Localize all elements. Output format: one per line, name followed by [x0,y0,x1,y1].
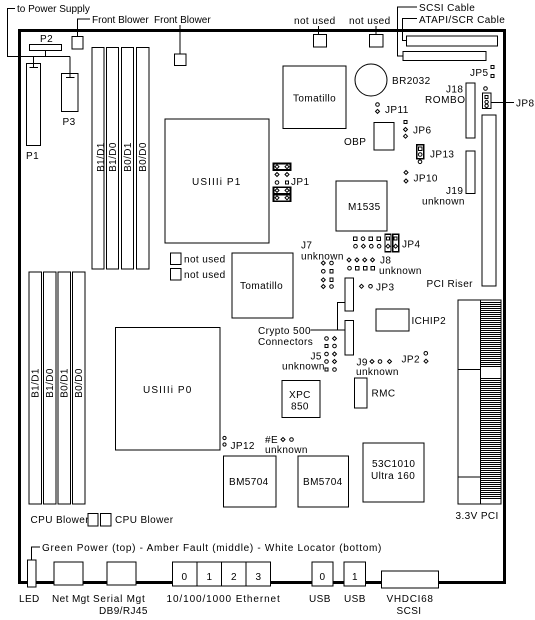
svg-text:JP10: JP10 [414,174,438,185]
svg-text:unknown: unknown [301,252,344,263]
svg-text:P2: P2 [40,34,53,45]
svg-text:Tomatillo: Tomatillo [240,281,283,292]
svg-text:not used: not used [184,255,226,266]
DIMM slot B0/D1 (upper bank) [122,48,135,270]
front blower connector 1 [72,37,83,50]
svg-text:DB9/RJ45: DB9/RJ45 [99,606,148,617]
jumper JP6 [404,120,432,138]
svg-text:unknown: unknown [265,445,308,456]
jumper JP3 [360,283,395,294]
svg-text:1: 1 [207,572,213,583]
front blower connector 2 [175,54,187,66]
not used connector 3 (mid board) [171,253,226,266]
svg-text:B1/D1: B1/D1 [96,142,107,172]
Ethernet port 2 [222,562,247,586]
svg-text:B0/D0: B0/D0 [138,142,149,172]
svg-text:Ultra 160: Ultra 160 [371,471,415,482]
not used connector 2 [370,35,384,48]
Tomatillo (lower) [232,253,293,318]
Crypto 500 Connectors label [258,303,345,349]
SCSI cable connector [403,52,486,61]
header J9 unknown [356,358,399,379]
svg-text:not used: not used [294,16,336,27]
svg-text:3.3V PCI: 3.3V PCI [456,511,499,522]
to Power Supply label [8,4,90,57]
jumper JP2 [402,352,429,366]
USB port 1 [344,562,366,586]
svg-text:unknown: unknown [379,266,422,277]
svg-text:Front Blower: Front Blower [154,15,211,26]
connector P2 [30,34,62,51]
svg-text:B0/D0: B0/D0 [74,368,85,398]
svg-text:unknown: unknown [356,367,399,378]
svg-text:unknown: unknown [422,197,465,208]
wire P1 to power line [30,57,39,68]
svg-text:CPU Blower: CPU Blower [115,515,174,526]
3.3V PCI slot [456,300,502,522]
svg-text:Tomatillo: Tomatillo [293,94,336,105]
RMC [355,378,396,408]
svg-text:B0/D1: B0/D1 [123,142,134,172]
USB port 0 [312,562,333,586]
svg-text:USIIIi P0: USIIIi P0 [143,385,192,396]
jumper JP10 [404,171,438,185]
svg-text:J7: J7 [301,241,312,252]
svg-text:3: 3 [256,572,262,583]
svg-text:SCSI: SCSI [397,606,422,617]
ATAPI/SCR Cable label [403,15,506,41]
VHDCI68 SCSI connector [382,571,439,617]
svg-text:USB: USB [309,594,331,605]
CPU blower connector 1 [88,514,98,527]
not used label 2 (top) [349,16,391,35]
Front Blower label 1 [78,15,150,37]
svg-text:B1/D0: B1/D0 [45,368,56,398]
svg-text:0: 0 [320,572,326,583]
CPU blower connector 2 [101,514,112,527]
svg-text:to Power Supply: to Power Supply [17,4,90,15]
not used connector 1 [314,35,327,48]
svg-text:VHDCI68: VHDCI68 [387,594,434,605]
chip ICHIP2 [376,309,446,331]
battery BR2032 [355,64,431,96]
DIMM slot B1/D1 (upper bank) [92,48,107,270]
jumper JP12 [223,436,255,452]
svg-text:Serial Mgt: Serial Mgt [93,594,146,605]
jumper JP8 [483,87,535,110]
crypto connector 1 [345,278,354,311]
chip XPC 850 [282,381,320,418]
Tomatillo (upper) [283,66,346,129]
svg-text:J19: J19 [446,186,463,197]
svg-text:JP12: JP12 [231,441,255,452]
Net Mgt connector [52,562,90,605]
LED legend label [32,543,383,560]
svg-text:not used: not used [349,16,391,27]
not used connector 4 (mid board) [171,269,226,282]
PCI Riser connector [427,115,497,290]
DIMM slot B1/D1 (lower bank) [29,272,42,504]
svg-text:USB: USB [344,594,366,605]
svg-text:JP11: JP11 [385,105,409,116]
chip BM5704 (right) [298,456,349,507]
not used label 1 (top) [294,16,336,35]
svg-text:OBP: OBP [344,137,366,148]
svg-text:B0/D1: B0/D1 [60,368,71,398]
jumper JP11 [376,103,409,116]
svg-text:BR2032: BR2032 [392,76,431,87]
connector J18 ROMBO [425,83,475,138]
crypto connector 2 [345,321,354,356]
svg-text:PCI Riser: PCI Riser [427,279,474,290]
svg-text:M1535: M1535 [348,202,381,213]
svg-text:1: 1 [352,572,358,583]
Serial Mgt connector [93,562,148,617]
CPU USIIIi P0 [116,328,221,451]
svg-text:JP6: JP6 [413,126,431,137]
svg-text:ICHIP2: ICHIP2 [412,316,447,327]
svg-text:850: 850 [291,402,309,413]
jumper JP5 [470,66,494,80]
svg-text:P1: P1 [26,151,39,162]
svg-text:Connectors: Connectors [258,337,313,348]
DIMM slot B0/D0 (upper bank) [137,48,150,270]
svg-text:J18: J18 [446,85,463,96]
DIMM slot B0/D0 (lower bank) [73,272,86,504]
chip BM5704 (left) [224,456,277,507]
svg-text:Front Blower: Front Blower [92,15,149,26]
Ethernet port 3 [246,562,271,586]
svg-text:BM5704: BM5704 [229,477,269,488]
svg-text:USIIIi P1: USIIIi P1 [192,177,241,188]
header J8 unknown [347,256,422,278]
svg-text:JP2: JP2 [402,355,420,366]
LED [19,560,40,605]
svg-text:JP8: JP8 [516,99,534,110]
svg-text:ROMBO: ROMBO [425,95,466,106]
DIMM slot B1/D0 (upper bank) [107,48,120,270]
svg-text:JP5: JP5 [470,68,488,79]
svg-text:0: 0 [182,572,188,583]
svg-text:B1/D0: B1/D0 [108,142,119,172]
Ethernet port 1 [197,562,222,586]
DIMM slot B0/D1 (lower bank) [58,272,71,504]
header J5 unknown [282,337,337,373]
header J7 unknown [301,241,344,289]
svg-text:P3: P3 [63,117,76,128]
wire P2 to power line [45,47,47,57]
chip 53C1010 Ultra 160 [363,443,424,502]
OBP [344,123,394,151]
svg-text:Net Mgt: Net Mgt [52,594,90,605]
CPU USIIIi P1 [165,119,269,243]
ATAPI/SCR cable connector [407,36,498,46]
svg-text:Green Power (top) - Amber Faul: Green Power (top) - Amber Fault (middle)… [42,543,382,554]
svg-text:RMC: RMC [372,389,396,400]
svg-text:JP4: JP4 [402,240,420,251]
SCSI Cable label [398,3,476,56]
svg-text:2: 2 [231,572,237,583]
svg-text:J8: J8 [380,256,391,267]
svg-text:ATAPI/SCR Cable: ATAPI/SCR Cable [419,15,505,26]
svg-text:Crypto 500: Crypto 500 [258,326,311,337]
svg-text:SCSI Cable: SCSI Cable [419,3,475,14]
jumper JP13 [417,145,455,164]
DIMM slot B1/D0 (lower bank) [44,272,57,504]
svg-text:CPU Blower: CPU Blower [31,515,90,526]
svg-text:not used: not used [184,270,226,281]
connector J19 unknown [422,151,475,208]
header #E unknown [265,435,308,456]
jumper JP4 [354,234,421,251]
svg-text:JP1: JP1 [291,177,309,188]
svg-text:LED: LED [19,594,40,605]
svg-text:XPC: XPC [289,390,311,401]
Front Blower label 2 [154,15,211,54]
svg-text:BM5704: BM5704 [303,477,343,488]
svg-text:B1/D1: B1/D1 [31,368,42,398]
svg-text:53C1010: 53C1010 [372,459,415,470]
svg-text:JP3: JP3 [376,283,394,294]
jumper JP1 [274,164,310,202]
connector P1 [26,64,41,163]
wire P3 to power line [66,57,75,78]
connector P3 [62,74,79,129]
svg-text:JP13: JP13 [430,150,454,161]
Ethernet port 0 [173,562,198,586]
svg-text:unknown: unknown [282,362,325,373]
svg-text:10/100/1000 Ethernet: 10/100/1000 Ethernet [167,594,281,605]
chip M1535 [336,181,387,231]
